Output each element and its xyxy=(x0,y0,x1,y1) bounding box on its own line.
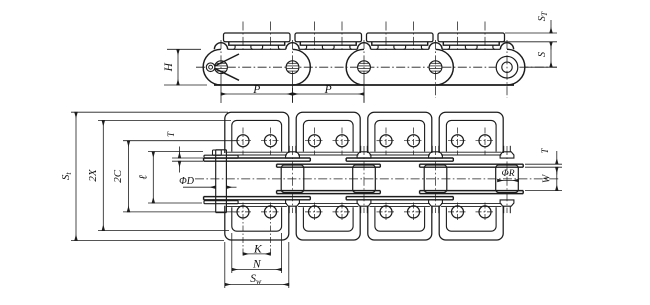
dimension L xyxy=(148,152,203,203)
attachment A2 lower holes xyxy=(305,203,352,222)
attachment top plate A2 with bent lugs (side view) xyxy=(295,33,362,49)
roller at pin 2 (plan view) xyxy=(281,165,304,193)
dimension St arrows (right) xyxy=(550,20,552,50)
dimension H line with arrows xyxy=(177,49,179,85)
dimension P line pin2-pin3 xyxy=(293,93,365,95)
label PhiD with leader xyxy=(179,176,236,187)
dimension St (plan overall height) xyxy=(71,112,228,240)
attachment A1 lower bent plate (plan view) xyxy=(225,204,289,240)
label P (second pitch) xyxy=(324,84,332,96)
cotter pin with washer at pin 1 (side view) xyxy=(206,54,239,80)
pin 5 riveted end (side view) xyxy=(496,56,518,78)
dimension S line with arrows xyxy=(550,42,552,67)
label P (first pitch) xyxy=(252,84,260,96)
outer plate right end arc at pin 2 xyxy=(293,49,311,85)
neck boss above pin 3 xyxy=(357,43,370,50)
dimension 2X xyxy=(98,120,231,230)
attachment A3 lower holes xyxy=(377,203,424,222)
hole centre lines of attachment A4 (side view) xyxy=(458,22,486,52)
svg-text:ΦD: ΦD xyxy=(179,176,195,187)
label W xyxy=(542,173,553,183)
roller at pin 5 (plan view) xyxy=(496,165,519,193)
pin 2 end with washer plates (plan view) xyxy=(286,146,300,213)
outer plate right end arc at pin 4 xyxy=(436,49,454,85)
label 2X xyxy=(87,168,99,182)
svg-text:K: K xyxy=(253,243,263,255)
dimension Sw xyxy=(225,284,289,286)
outer link plates seen from above (link 1) xyxy=(204,158,311,200)
svg-text:2C: 2C xyxy=(112,169,124,183)
label T (left) xyxy=(166,131,176,137)
dimension P line pin1-pin2 xyxy=(221,93,293,95)
attachment A3 upper bent plate (plan view) xyxy=(368,112,432,155)
pin 2 (side view) xyxy=(286,61,299,74)
label T (right) xyxy=(540,148,550,154)
label St xyxy=(537,11,549,21)
pin 3 (side view) xyxy=(358,61,371,74)
outer plate left end arc at pin 1 xyxy=(203,49,221,85)
dimension T (left plate thickness) xyxy=(172,147,203,173)
dimension Sw extension lines xyxy=(225,242,289,288)
pin 5 vertical centre line (plan view) xyxy=(506,146,508,213)
attachment A4 upper holes xyxy=(448,128,495,156)
hole centre lines of attachment A2 (side view) xyxy=(315,22,343,52)
roller at pin 4 (plan view) xyxy=(424,165,447,193)
svg-text:N: N xyxy=(252,258,262,270)
wire: centre line extension to S dimension xyxy=(525,66,557,68)
pin 3 vertical centre line (plan view) xyxy=(363,146,365,213)
label H xyxy=(163,62,175,72)
svg-text:2X: 2X xyxy=(87,168,99,182)
attachment top plate A3 with bent lugs (side view) xyxy=(367,33,434,49)
neck boss above pin 5 xyxy=(500,43,513,50)
wire: chain horizontal centre line (side view) xyxy=(196,66,557,68)
pin 4 vertical centre line (plan view) xyxy=(435,146,437,213)
dimension W extension line xyxy=(525,190,562,192)
svg-text:ΦR: ΦR xyxy=(501,169,514,179)
attachment A4 lower bent plate (plan view) xyxy=(439,204,503,240)
pin 5 vertical centre line (side view) xyxy=(506,40,508,98)
pin 2 vertical centre line (side view) xyxy=(292,40,294,103)
svg-text:P: P xyxy=(252,84,260,96)
attachment A2 upper holes xyxy=(305,128,352,156)
pin 3 vertical centre line (side view) xyxy=(363,40,365,103)
dimension N extension lines xyxy=(232,233,282,273)
attachment A4 upper bent plate (plan view) xyxy=(439,112,503,155)
label N xyxy=(252,258,262,270)
hole centre lines of attachment A3 (side view) xyxy=(386,22,414,52)
hole centre lines of attachment A1 (side view) xyxy=(243,22,271,52)
wire: chain bottom edge (side view) xyxy=(214,84,514,86)
attachment A1 upper holes xyxy=(234,128,281,156)
attachment A3 lower bent plate (plan view) xyxy=(368,204,432,240)
attachment top plate A1 with bent lugs (side view) xyxy=(224,33,291,49)
pin 1 transverse pin rod with washer plates (plan view) xyxy=(204,150,238,213)
dimension P extension below pins xyxy=(221,76,364,102)
dimension N xyxy=(232,269,282,271)
neck boss above pin 2 xyxy=(286,43,299,50)
pin 4 (side view) xyxy=(429,61,442,74)
dimension T arrows (right) xyxy=(556,151,558,175)
dimension H extension lines xyxy=(164,49,207,85)
label S xyxy=(537,52,548,57)
attachment A4 lower holes xyxy=(448,203,495,222)
dimension 2C xyxy=(123,141,237,212)
label 2C xyxy=(112,169,124,183)
label Sw xyxy=(250,273,262,286)
svg-text:S: S xyxy=(537,52,548,57)
svg-text:H: H xyxy=(163,62,175,72)
label K xyxy=(253,243,263,255)
dimension St extension lines (right) xyxy=(500,33,557,42)
pin 5 end with washer plates (plan view) xyxy=(500,146,514,213)
neck boss above pin 4 xyxy=(429,43,442,50)
pin 1 (side view) xyxy=(215,61,228,74)
attachment A1 lower holes xyxy=(234,203,281,257)
dimension W xyxy=(556,167,558,190)
label St (plan) xyxy=(60,172,73,181)
wire: chain top edge (side view) xyxy=(228,48,501,50)
pin 4 vertical centre line (side view) xyxy=(435,40,437,98)
label PhiR xyxy=(501,169,514,179)
wire: chain horizontal centre line (plan view) xyxy=(195,178,560,180)
dimension T extension lines (right) xyxy=(525,164,562,167)
inner link plates seen from above (link 2) xyxy=(277,164,381,193)
roller at pin 3 (plan view) xyxy=(353,165,376,193)
attachment A1 upper bent plate (plan view) xyxy=(225,112,289,155)
outer plate left end arc at pin 3 xyxy=(346,49,364,85)
svg-text:ℓ: ℓ xyxy=(138,175,150,180)
attachment A2 lower bent plate (plan view) xyxy=(296,204,360,240)
outer link plates seen from above (link 3) xyxy=(346,158,453,200)
attachment A2 upper bent plate (plan view) xyxy=(296,112,360,155)
pin 1 vertical centre line (side view) xyxy=(220,40,222,103)
attachment A3 upper holes xyxy=(377,128,424,156)
inner link right end arc at pin 5 xyxy=(507,49,525,85)
inner link plates seen from above (link 4) xyxy=(420,164,524,193)
dimension PhiR xyxy=(498,180,519,182)
dimension K xyxy=(243,253,271,255)
svg-text:P: P xyxy=(324,84,332,96)
neck boss above pin 1 xyxy=(214,43,227,50)
pin 4 end with washer plates (plan view) xyxy=(429,146,443,213)
label L xyxy=(138,175,150,180)
pin 2 vertical centre line (plan view) xyxy=(292,146,294,213)
pin 3 end with washer plates (plan view) xyxy=(357,146,371,213)
attachment top plate A4 with bent lugs (side view) xyxy=(438,33,505,49)
